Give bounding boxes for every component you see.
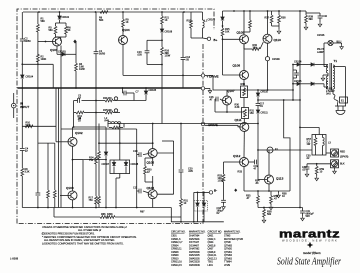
svg-text:model fifteen: model fifteen	[303, 251, 321, 255]
transistor Q102	[68, 137, 77, 146]
transistor Q103	[68, 191, 77, 200]
svg-text:3AG: 3AG	[326, 93, 331, 96]
svg-text:CR111: CR111	[261, 112, 269, 115]
wire Q109 collector top	[243, 10, 245, 35]
resistor R38 x279	[277, 11, 281, 34]
terminal -DRIVE	[201, 122, 204, 125]
capacitor C10 to Q105 base	[137, 129, 149, 157]
svg-text:WOODSIDE, NEW YORK: WOODSIDE, NEW YORK	[282, 238, 338, 242]
svg-text:R66: R66	[101, 213, 106, 216]
svg-text:50/50: 50/50	[99, 53, 106, 56]
svg-text:R37: R37	[265, 17, 270, 20]
svg-text:E1: E1	[341, 100, 345, 103]
svg-text:Q110: Q110	[274, 38, 282, 42]
junction dots top rail	[21, 10, 301, 208]
svg-text:L901: L901	[208, 264, 214, 267]
wire y129	[61, 128, 137, 130]
wire Q107 emitter	[215, 105, 244, 113]
wire speaker return	[307, 163, 331, 165]
svg-text:1W: 1W	[307, 143, 311, 146]
svg-text:Q104: Q104	[122, 28, 130, 32]
diode CR105	[144, 88, 147, 101]
wire x307	[299, 127, 319, 135]
resistor R50 47	[144, 158, 153, 182]
capacitor C11 to Q106 base	[137, 155, 149, 208]
SEC-LABELS	[20, 28, 337, 193]
wire Q109 base	[223, 38, 240, 40]
terminal +DRIVE	[201, 74, 204, 77]
svg-text:100K: 100K	[41, 58, 47, 61]
diode CR115	[293, 82, 328, 87]
wire x61	[60, 88, 62, 208]
wire Q113	[258, 150, 269, 191]
wire x76	[75, 42, 77, 89]
resistor R15 10k	[96, 109, 120, 114]
transistor Q112	[240, 158, 249, 167]
diode CR103	[57, 46, 76, 56]
svg-text:R33: R33	[238, 171, 243, 174]
resistor R9 3.3k	[21, 168, 24, 176]
wire x300 main B+ bus	[299, 11, 301, 208]
svg-text:Q111: Q111	[235, 118, 242, 122]
wire output rail y123.5	[108, 123, 258, 125]
resistor R4b	[56, 23, 68, 41]
svg-text:Q109: Q109	[237, 31, 245, 35]
resistor R7 x48	[47, 190, 50, 198]
svg-text:4K: 4K	[68, 29, 71, 32]
svg-text:INPUT: INPUT	[20, 105, 29, 109]
resistor R8 x54.8	[53, 190, 56, 198]
svg-text:750: 750	[89, 159, 94, 162]
diamond node x76	[73, 40, 76, 44]
terminal gnd	[201, 87, 204, 90]
svg-text:C42: C42	[323, 15, 328, 18]
AC interlock box	[340, 97, 348, 103]
wire top rail left	[23, 11, 191, 13]
wire x222.5 column	[222, 11, 224, 75]
fuse F1	[258, 147, 312, 153]
gnd y191 right	[277, 191, 281, 198]
svg-text:CIRCUIT NO.: CIRCUIT NO.	[208, 231, 223, 234]
svg-text:L3: L3	[328, 142, 331, 145]
svg-text:LTM9: LTM9	[224, 264, 231, 267]
svg-text:56K: 56K	[41, 20, 46, 23]
resistor R18 x193	[190, 12, 193, 38]
diode x106	[104, 152, 107, 155]
svg-text:390: 390	[309, 18, 314, 21]
boxed resistor R27	[241, 86, 248, 108]
capacitor C40 x309	[305, 164, 310, 177]
svg-text:1/2W: 1/2W	[79, 68, 85, 71]
svg-text:CIRCUIT NO.: CIRCUIT NO.	[171, 231, 186, 234]
wire Q102 base	[56, 141, 68, 143]
wire y143.2 bias feed	[98, 142, 154, 144]
svg-text:CR114: CR114	[294, 61, 302, 64]
transistor Q109	[240, 35, 249, 44]
svg-text:DMC8309: DMC8309	[189, 264, 200, 267]
svg-text:Q107: Q107	[227, 89, 235, 93]
wire x181 column C17	[179, 124, 184, 223]
AC plug	[335, 106, 346, 115]
wire Q107 collector	[226, 90, 228, 96]
transformer T1	[326, 63, 334, 90]
wire +DRIVE rail y90	[205, 76, 293, 91]
chassis border (dash-dot)	[17, 9, 214, 224]
transformer centertap gnd	[321, 75, 328, 81]
wire x96	[95, 88, 97, 208]
svg-text:10K: 10K	[225, 31, 230, 34]
svg-text:CR914,15: CR914,15	[171, 264, 182, 267]
wire x48 C6 branch	[38, 143, 55, 207]
diodes CR112 CR113 (optional)	[194, 192, 208, 222]
resistor R2 100k	[37, 54, 40, 62]
wire x99 column	[98, 124, 100, 208]
diode CR108	[160, 29, 163, 32]
svg-text:Q103: Q103	[66, 186, 74, 190]
resistor R56 emitter	[269, 191, 273, 210]
svg-text:50V: 50V	[306, 215, 311, 218]
svg-text:10K: 10K	[108, 109, 113, 112]
wire Q104 down / C7	[123, 45, 201, 77]
inductor L1 x202.5	[191, 12, 207, 39]
svg-text:Q106: Q106	[147, 186, 155, 190]
svg-text:C10: C10	[133, 150, 138, 153]
wire -DRIVE to Q111 base	[205, 125, 240, 127]
wire Q112 base	[224, 161, 240, 163]
resistor R25	[221, 28, 224, 36]
wire x58.5	[58, 88, 60, 208]
svg-text:CR105: CR105	[149, 89, 157, 92]
svg-text:CR107: CR107	[102, 163, 110, 166]
wire B-	[194, 191, 210, 193]
terminal B-	[209, 191, 212, 194]
gnd at border	[205, 88, 212, 93]
svg-text:MARANTZ NO.: MARANTZ NO.	[224, 231, 241, 234]
resistor R14 750	[95, 196, 98, 204]
svg-text:560: 560	[49, 29, 54, 32]
resistor R16 750	[98, 151, 101, 159]
wire x284.6	[284, 100, 290, 191]
fuse 2.5A	[333, 94, 338, 106]
speaker terminal BLK	[331, 160, 339, 174]
transistor Q106	[148, 190, 157, 199]
svg-text:390: 390	[253, 47, 258, 50]
svg-text:1/2W: 1/2W	[218, 180, 224, 183]
wire y126.3 input branch	[22, 125, 56, 127]
resistor R37 x271.6	[270, 11, 279, 26]
svg-text:3.3K: 3.3K	[25, 171, 30, 174]
svg-text:B-: B-	[214, 189, 217, 193]
svg-text:F DENOTES PRECISION FILM RESIS: F DENOTES PRECISION FILM RESISTORS.	[42, 232, 95, 236]
svg-text:ALL OTHER ARE pf: ALL OTHER ARE pf	[78, 228, 101, 232]
wire x37.9 column	[37, 12, 39, 208]
wire Q111 to Q112	[243, 132, 245, 192]
svg-text:56K: 56K	[99, 19, 104, 22]
wire Q110 emitter / CR109	[265, 43, 269, 90]
wire x83	[82, 160, 84, 208]
wire x54.8	[54, 143, 56, 207]
wire x106	[73, 127, 107, 208]
diode CR104	[21, 75, 24, 78]
svg-text:150: 150	[250, 112, 255, 115]
svg-text:BLK: BLK	[340, 163, 345, 166]
wire x72.5 diff pair	[72, 127, 83, 191]
svg-text:R30: R30	[241, 83, 246, 86]
svg-text:Solid State Amplifier: Solid State Amplifier	[277, 257, 341, 268]
wire Q105 collector right	[157, 141, 173, 194]
svg-text:180K: 180K	[107, 213, 113, 216]
svg-text:50/50: 50/50	[25, 40, 32, 43]
transistor Q104	[119, 36, 128, 45]
svg-text:R49: R49	[105, 120, 110, 123]
svg-text:Q112: Q112	[233, 154, 241, 158]
svg-text:Q113: Q113	[276, 177, 284, 181]
pilot lamp CR116	[324, 40, 343, 66]
diamond node Q112 emitter	[234, 189, 237, 192]
resistor R17 750	[98, 196, 101, 204]
wire Q101 base	[38, 41, 53, 43]
svg-text:CR106: CR106	[208, 19, 216, 22]
wire bottom rail y207.5	[22, 207, 171, 209]
svg-text:R38: R38	[281, 17, 286, 20]
svg-text:CR103: CR103	[58, 51, 66, 54]
svg-text:CR102: CR102	[62, 16, 70, 19]
inductor L2 / R49 parallel	[108, 122, 124, 129]
svg-text:1K: 1K	[126, 21, 129, 24]
svg-text:.005: .005	[188, 170, 193, 173]
wire y64.3 branch	[21, 63, 53, 88]
svg-text:6V: 6V	[217, 212, 220, 215]
resistor R13 750	[95, 156, 98, 164]
transistor Q110	[263, 34, 272, 43]
diode column x258	[256, 90, 261, 150]
resistor R32 390 between	[244, 42, 263, 50]
capacitor C7 100uF y93	[123, 88, 135, 101]
boxed resistor R31	[242, 108, 249, 123]
svg-text:T1: T1	[334, 59, 338, 63]
wire input jack	[11, 93, 16, 118]
resistor R9 1k x119	[122, 12, 125, 35]
wire x56	[55, 88, 57, 142]
svg-text:3.3K: 3.3K	[235, 106, 240, 109]
svg-text:(SPKR): (SPKR)	[340, 156, 348, 159]
transistor Q113	[265, 175, 274, 184]
primary loop right	[333, 67, 346, 106]
svg-text:- DRIVE: - DRIVE	[207, 123, 218, 127]
svg-text:Q105: Q105	[147, 161, 155, 165]
wire Q103 emitter	[72, 200, 74, 208]
capacitor C6 2000uF	[36, 193, 41, 195]
svg-text:MARANTZ NO.: MARANTZ NO.	[189, 231, 206, 234]
wire Q101 emitter to R4	[60, 46, 62, 89]
wire top rail right	[223, 10, 301, 12]
svg-text:CR110: CR110	[261, 91, 269, 94]
svg-text:+ DRIVE: + DRIVE	[207, 75, 219, 79]
svg-text:5.6K: 5.6K	[26, 124, 31, 127]
marantz logo	[277, 229, 341, 268]
node B+	[207, 37, 210, 40]
transistor Q101	[53, 37, 62, 46]
resistor R53 column	[222, 162, 225, 200]
wire x183 column C14	[181, 12, 186, 88]
svg-text:BLU: BLU	[337, 41, 342, 44]
transistor Q108	[240, 71, 249, 80]
resistor x162 top	[161, 16, 164, 24]
svg-text:C7: C7	[136, 91, 140, 94]
speaker terminal RED	[331, 149, 339, 157]
transistor Q105	[148, 149, 157, 158]
feedback box C5/R12	[73, 98, 97, 128]
svg-text:F1: F1	[275, 148, 278, 151]
transistor Q107	[223, 96, 232, 105]
capacitor C4	[20, 149, 25, 151]
svg-text:ALL RESISTORS ARE IN OHMS, 1/4: ALL RESISTORS ARE IN OHMS, 1/4W EXCEPT A…	[44, 238, 115, 242]
svg-text:CR116: CR116	[317, 34, 325, 37]
svg-text:CR104: CR104	[26, 76, 34, 79]
wire y191	[244, 190, 290, 192]
transistor Q111	[240, 123, 249, 132]
resistor R10 input	[25, 125, 33, 128]
svg-text:Q108: Q108	[233, 64, 241, 68]
resistor R5 560	[54, 23, 57, 37]
wire feedback y217	[54, 208, 181, 219]
notes text block	[42, 225, 137, 246]
capacitor C42 x320	[306, 13, 322, 27]
resistor R58 560	[262, 208, 266, 223]
svg-text:B+: B+	[214, 38, 218, 42]
wire Q103 base	[60, 194, 68, 196]
svg-text:750: 750	[89, 199, 94, 202]
resistor R1 56k	[37, 24, 40, 32]
wire ground bus y88 (bold)	[18, 87, 202, 89]
svg-text:.005: .005	[137, 54, 142, 57]
resistor R59 x322	[315, 164, 319, 181]
diode CR114	[293, 63, 328, 66]
wire left rail x22.3	[21, 12, 23, 208]
svg-text:Q102: Q102	[75, 131, 83, 135]
svg-text:CR115: CR115	[294, 80, 302, 83]
wire y100	[257, 99, 300, 101]
capacitor C13	[145, 39, 163, 64]
svg-text:CR108: CR108	[165, 31, 173, 34]
svg-text:Q101: Q101	[50, 48, 58, 52]
svg-text:Δ DENOTES COMPONENTS THAT MAY: Δ DENOTES COMPONENTS THAT MAY BE OMITTED…	[42, 242, 124, 246]
resistor R4 5.6k	[75, 63, 78, 71]
wire x293 rectifier bus	[292, 64, 294, 100]
svg-text:RED: RED	[340, 151, 345, 154]
wire Q110 collector	[267, 11, 269, 34]
capacitor C16	[215, 97, 222, 112]
parts table	[171, 231, 244, 267]
wire Q108 base	[223, 74, 240, 76]
capacitor C2	[20, 39, 25, 41]
svg-text:R18: R18	[187, 20, 192, 23]
inductor L3 / R57 box	[312, 135, 326, 156]
wire x95.5	[94, 12, 99, 88]
resistor R16 39k	[161, 47, 164, 55]
svg-text:1/2W: 1/2W	[165, 55, 171, 58]
svg-text:560: 560	[267, 213, 272, 216]
resistor R26 x250	[244, 11, 251, 32]
svg-text:R67: R67	[140, 211, 145, 214]
diode CR106	[221, 17, 224, 20]
capacitor C19 47	[249, 149, 259, 164]
wire x162 column	[161, 12, 163, 124]
resistor R39 x306	[300, 11, 308, 30]
resistor R11 470	[96, 97, 146, 102]
wire Q105/Q106 emitters	[152, 124, 154, 208]
wire Q108 down to box	[243, 44, 245, 86]
svg-text:LAMP: LAMP	[317, 51, 324, 54]
wire box to speaker RED	[326, 152, 331, 154]
svg-text:CR108: CR108	[131, 163, 139, 166]
zener CR101	[58, 12, 61, 23]
resistor R6 56k on top rail	[96, 11, 109, 14]
svg-text:470: 470	[108, 97, 113, 100]
capacitor C43 across	[293, 70, 299, 78]
capacitor C41	[300, 208, 305, 221]
svg-text:C11: C11	[133, 187, 138, 190]
capacitor C18	[221, 200, 226, 209]
resistor R55 emitter	[257, 191, 260, 208]
svg-text:1K: 1K	[165, 19, 168, 22]
svg-text:L-0508: L-0508	[10, 257, 19, 261]
bias diode bridge CR107	[110, 124, 130, 208]
svg-text:CR109: CR109	[272, 58, 280, 61]
